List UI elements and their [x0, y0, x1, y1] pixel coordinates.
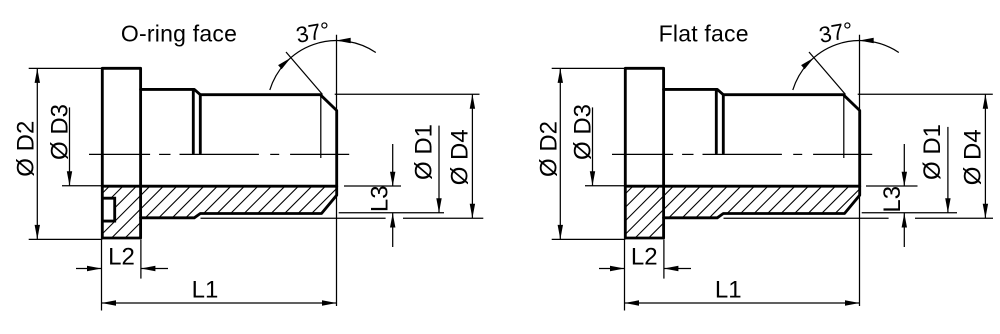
svg-text:Flat face: Flat face — [659, 21, 749, 47]
svg-text:Ø D4: Ø D4 — [447, 129, 474, 185]
svg-text:Ø D2: Ø D2 — [536, 121, 563, 177]
svg-text:Ø D4: Ø D4 — [960, 129, 987, 185]
svg-text:Ø D1: Ø D1 — [410, 124, 437, 180]
svg-text:L1: L1 — [715, 277, 742, 304]
svg-text:O-ring face: O-ring face — [121, 21, 237, 47]
svg-text:L3: L3 — [366, 185, 393, 212]
svg-text:Ø D1: Ø D1 — [919, 124, 946, 180]
svg-text:Ø D3: Ø D3 — [46, 104, 73, 160]
svg-text:L3: L3 — [879, 186, 906, 213]
svg-text:L2: L2 — [631, 244, 658, 271]
svg-text:Ø D2: Ø D2 — [13, 121, 40, 177]
svg-text:L2: L2 — [108, 244, 135, 271]
svg-text:L1: L1 — [192, 277, 219, 304]
svg-text:Ø D3: Ø D3 — [569, 104, 596, 160]
